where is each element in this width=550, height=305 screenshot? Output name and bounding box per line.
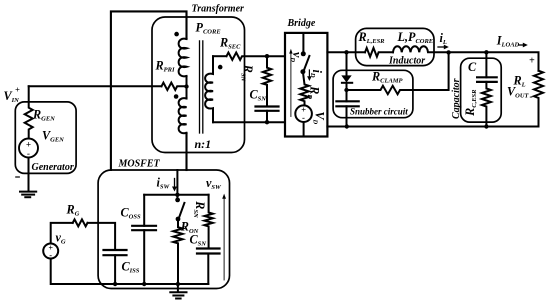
source VGEN — [19, 139, 38, 158]
wire primary bottom to MOSFET — [185, 133, 187, 170]
snubber block label — [350, 107, 408, 117]
generator box — [15, 102, 76, 173]
svg-text:VD: VD — [312, 111, 327, 124]
svg-text:C: C — [468, 60, 477, 74]
svg-text:RCLAMP: RCLAMP — [371, 70, 404, 85]
ground — [177, 284, 179, 292]
resistor RON — [173, 219, 182, 284]
inductor box — [356, 28, 434, 65]
resistor RCESR — [482, 82, 491, 127]
transformer block label — [192, 4, 245, 15]
node diode cathode junction — [344, 88, 348, 92]
junction CISS bottom — [113, 282, 117, 286]
node capacitor bottom — [484, 124, 488, 128]
capacitor box — [461, 58, 502, 122]
wire secondary bottom — [213, 121, 285, 123]
wire CISS to bottom rail — [114, 255, 116, 284]
svg-text:RSEC: RSEC — [219, 36, 241, 51]
resistor RGEN — [25, 86, 33, 138]
svg-text:RGEN: RGEN — [32, 108, 55, 123]
resistor RCLAMP — [347, 52, 449, 94]
bridge block label — [287, 18, 316, 29]
svg-text:iSW: iSW — [157, 176, 171, 191]
source vG — [43, 244, 58, 259]
svg-text:PCORE: PCORE — [196, 21, 222, 36]
svg-text:+: + — [529, 55, 535, 66]
node RSN bottom junction — [265, 120, 269, 124]
svg-text:Inductor: Inductor — [388, 56, 425, 67]
primary winding upper — [179, 39, 187, 77]
turns ratio label — [195, 137, 212, 151]
wire internal drain rail — [144, 194, 208, 196]
resistor RPRI — [162, 83, 187, 90]
resistor RG — [73, 219, 88, 226]
svg-text:RC,ESR: RC,ESR — [463, 89, 478, 117]
current label iSW — [157, 176, 171, 191]
node snubber bottom — [345, 124, 349, 128]
source VD — [295, 105, 312, 122]
core loss label PCORE — [196, 21, 222, 36]
wire bridge out top — [327, 51, 365, 53]
wire VGEN to ground — [28, 158, 30, 191]
wire VD to box bottom — [303, 122, 305, 137]
svg-text:RSN: RSN — [240, 64, 255, 82]
resistor RLESR — [365, 48, 393, 57]
svg-text:MOSFET: MOSFET — [118, 159, 161, 170]
primary winding lower — [179, 98, 187, 133]
current label iL + arrow — [440, 31, 447, 46]
svg-text:L,PCORE: L,PCORE — [397, 30, 434, 45]
wire input node to R_PRI — [29, 85, 162, 87]
svg-text:Transformer: Transformer — [192, 4, 245, 15]
wire bottom rail — [51, 259, 209, 285]
transformer box — [152, 17, 245, 153]
node RSN top junction — [265, 54, 269, 58]
current label ILOAD + arrow — [496, 34, 520, 49]
wire bottom rail right — [327, 126, 538, 128]
node drain junction — [175, 193, 179, 197]
node dot primary top — [174, 32, 179, 37]
svg-text:CISS: CISS — [122, 260, 140, 275]
ground — [20, 192, 36, 198]
capacitor CISS — [104, 250, 127, 255]
node snubber tap — [344, 50, 348, 54]
capacitor CSN (secondary) — [256, 107, 279, 111]
wire main to load — [486, 52, 538, 70]
svg-text:iL: iL — [440, 31, 447, 46]
svg-text:Capacitor: Capacitor — [451, 78, 462, 119]
junction COSS bottom — [142, 282, 146, 286]
wire RG to CISS — [88, 223, 116, 250]
resistor RSN (mosfet) — [204, 195, 212, 249]
svg-text:Snubber circuit: Snubber circuit — [350, 107, 408, 117]
snubber box — [333, 70, 413, 117]
svg-text:Bridge: Bridge — [287, 18, 316, 29]
capacitor CSN (mosfet) — [197, 249, 220, 254]
junction ground node — [176, 282, 180, 286]
capacitor C — [485, 52, 487, 77]
svg-text:CSN: CSN — [250, 88, 267, 103]
capacitor block label (rotated) — [451, 78, 462, 119]
transformer core — [200, 41, 203, 133]
MOSFET block label — [118, 159, 161, 170]
voltage label VOUT — [507, 85, 533, 103]
node capacitor top — [484, 50, 488, 54]
svg-text:ILOAD: ILOAD — [496, 34, 520, 49]
wire drain stub from box edge — [176, 170, 178, 200]
capacitor COSS — [143, 195, 145, 226]
node Vin label — [4, 84, 21, 104]
inductor L — [393, 46, 486, 52]
svg-text:-: - — [530, 91, 533, 102]
svg-text:COSS: COSS — [121, 206, 141, 221]
node RCLAMP top junction — [446, 50, 450, 54]
switch diode stub — [302, 34, 304, 54]
wire winding to junction — [186, 76, 188, 99]
node dot primary lower — [174, 94, 179, 99]
minus mark — [16, 176, 19, 178]
wire primary top — [111, 11, 187, 170]
current label iD + arrow — [308, 70, 310, 78]
svg-text:Generator: Generator — [32, 162, 74, 173]
svg-text:vG: vG — [56, 231, 66, 246]
svg-text:VGEN: VGEN — [42, 128, 64, 143]
wire vG top to RG — [51, 223, 73, 244]
resistor RL — [534, 71, 543, 127]
MOSFET box — [98, 170, 229, 289]
svg-text:n:1: n:1 — [195, 137, 212, 151]
switch SW — [175, 198, 180, 203]
resistor RSN (secondary) — [263, 56, 271, 106]
node dot secondary — [218, 65, 223, 70]
wire secondary top — [213, 55, 227, 57]
resistor RSEC — [227, 53, 286, 60]
svg-text:RPRI: RPRI — [155, 59, 175, 74]
svg-text:vSW: vSW — [206, 176, 222, 191]
capacitor snubber — [336, 101, 358, 106]
svg-text:+: + — [15, 84, 20, 94]
arrow vSW measurement line — [223, 198, 225, 280]
arrow vD measurement line — [290, 53, 292, 117]
svg-text:RD: RD — [306, 85, 321, 99]
svg-text:RG: RG — [66, 203, 80, 218]
svg-text:iD: iD — [309, 70, 324, 78]
generator block label — [32, 162, 74, 173]
bridge box — [285, 33, 327, 137]
secondary winding — [205, 56, 213, 122]
voltage label vSW — [206, 176, 222, 191]
svg-text:RL,ESR: RL,ESR — [358, 30, 386, 45]
resistor RD — [300, 72, 309, 106]
arrow iSW — [174, 179, 176, 188]
plus mark Vout — [529, 55, 535, 66]
diode D — [346, 52, 348, 76]
node primary centre junction — [184, 84, 188, 88]
inductor block label — [388, 56, 425, 67]
